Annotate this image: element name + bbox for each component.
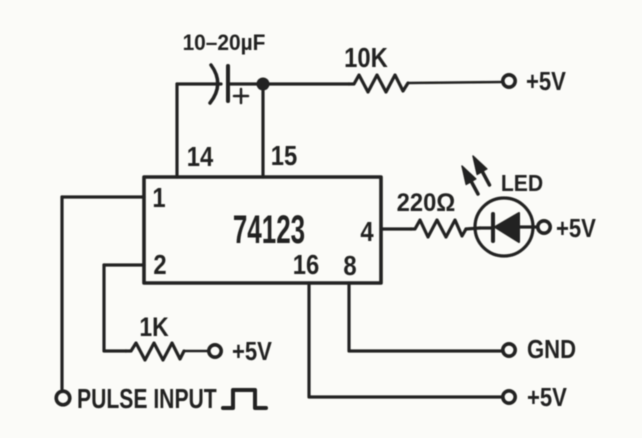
svg-text:+5V: +5V <box>526 67 566 96</box>
LED light arrow 1 <box>462 166 478 194</box>
terminal circle LED +5V <box>538 221 550 233</box>
svg-text:4: 4 <box>360 215 374 247</box>
wire: pin 2 left <box>104 263 144 266</box>
capacitor C1 plus sign <box>234 89 248 103</box>
wire: down and right to R2 <box>104 265 126 351</box>
wire: pin 1 left <box>62 195 144 198</box>
terminal circle top +5V <box>503 75 515 87</box>
capacitor C1 straight plate <box>226 66 230 101</box>
svg-text:1K: 1K <box>139 312 168 342</box>
resistor R3 220ohm zigzag <box>411 220 466 237</box>
terminal circle 1K +5V <box>209 345 221 357</box>
terminal circle GND <box>503 344 515 356</box>
svg-text:+5V: +5V <box>527 383 567 412</box>
svg-text:PULSE INPUT: PULSE INPUT <box>77 384 217 414</box>
LED triangle <box>495 213 519 242</box>
LED D1 circle <box>475 198 533 256</box>
wire: R2 to +5V terminal <box>184 350 208 353</box>
svg-text:10–20µF: 10–20µF <box>183 31 266 56</box>
junction node dot <box>257 78 270 91</box>
wire: R3 to LED <box>466 228 480 229</box>
label +5V LED <box>556 214 596 243</box>
terminal circle bottom +5V <box>503 391 515 403</box>
svg-text:+5V: +5V <box>556 214 596 243</box>
svg-text:16: 16 <box>293 248 319 280</box>
svg-text:14: 14 <box>187 140 214 172</box>
pin label 16 <box>293 248 319 280</box>
terminal circle pulse input <box>56 391 70 405</box>
pin label 1 <box>152 181 165 213</box>
IC U1 74123 box <box>144 177 381 283</box>
resistor R1 10K zigzag <box>349 75 408 92</box>
LED light arrow 2 <box>473 156 490 185</box>
svg-text:2: 2 <box>153 248 166 280</box>
pin label 15 <box>271 139 297 171</box>
svg-text:10K: 10K <box>344 41 388 73</box>
label 10-20uF <box>183 31 266 56</box>
svg-text:8: 8 <box>343 249 356 281</box>
capacitor C1 10-20uF curved plate <box>210 65 218 103</box>
wire: pin 16 down and right to +5V <box>309 283 503 397</box>
LED cathode bar <box>491 214 495 241</box>
pin label 8 <box>343 249 356 281</box>
label 1K <box>139 312 168 342</box>
label PULSE INPUT <box>77 384 217 414</box>
svg-text:+5V: +5V <box>232 337 272 366</box>
pin label 4 <box>360 215 374 247</box>
svg-text:1: 1 <box>152 181 165 213</box>
label LED <box>501 170 543 196</box>
label 74123 <box>233 207 305 252</box>
wire: junction down to pin 15 <box>261 84 264 177</box>
pulse waveform symbol <box>223 390 266 408</box>
wire: R1 to +5V terminal <box>408 82 502 83</box>
wire: pin 8 down and right to GND <box>349 283 503 351</box>
label 10K <box>344 41 388 73</box>
label +5V mid-left <box>232 337 272 366</box>
wire: cap right plate to junction <box>230 82 263 85</box>
svg-text:74123: 74123 <box>233 207 305 252</box>
label +5V bottom <box>527 383 567 412</box>
label GND <box>527 335 576 364</box>
label +5V top <box>526 67 566 96</box>
wire: down to pulse input terminal <box>60 197 63 389</box>
svg-text:15: 15 <box>271 139 297 171</box>
LED internal wire <box>480 227 537 228</box>
svg-text:GND: GND <box>527 335 576 364</box>
pin label 2 <box>153 248 166 280</box>
pin label 14 <box>187 140 214 172</box>
wire: cap left lead to corner <box>177 82 221 85</box>
wire: junction right to resistor R1 <box>263 82 349 85</box>
label 220 ohm <box>397 189 456 217</box>
svg-text:LED: LED <box>501 170 543 196</box>
wire: pin 4 right <box>381 227 411 230</box>
resistor R2 1K zigzag <box>126 343 184 360</box>
svg-text:220Ω: 220Ω <box>397 189 456 217</box>
wire: corner down to pin 14 <box>175 84 178 177</box>
